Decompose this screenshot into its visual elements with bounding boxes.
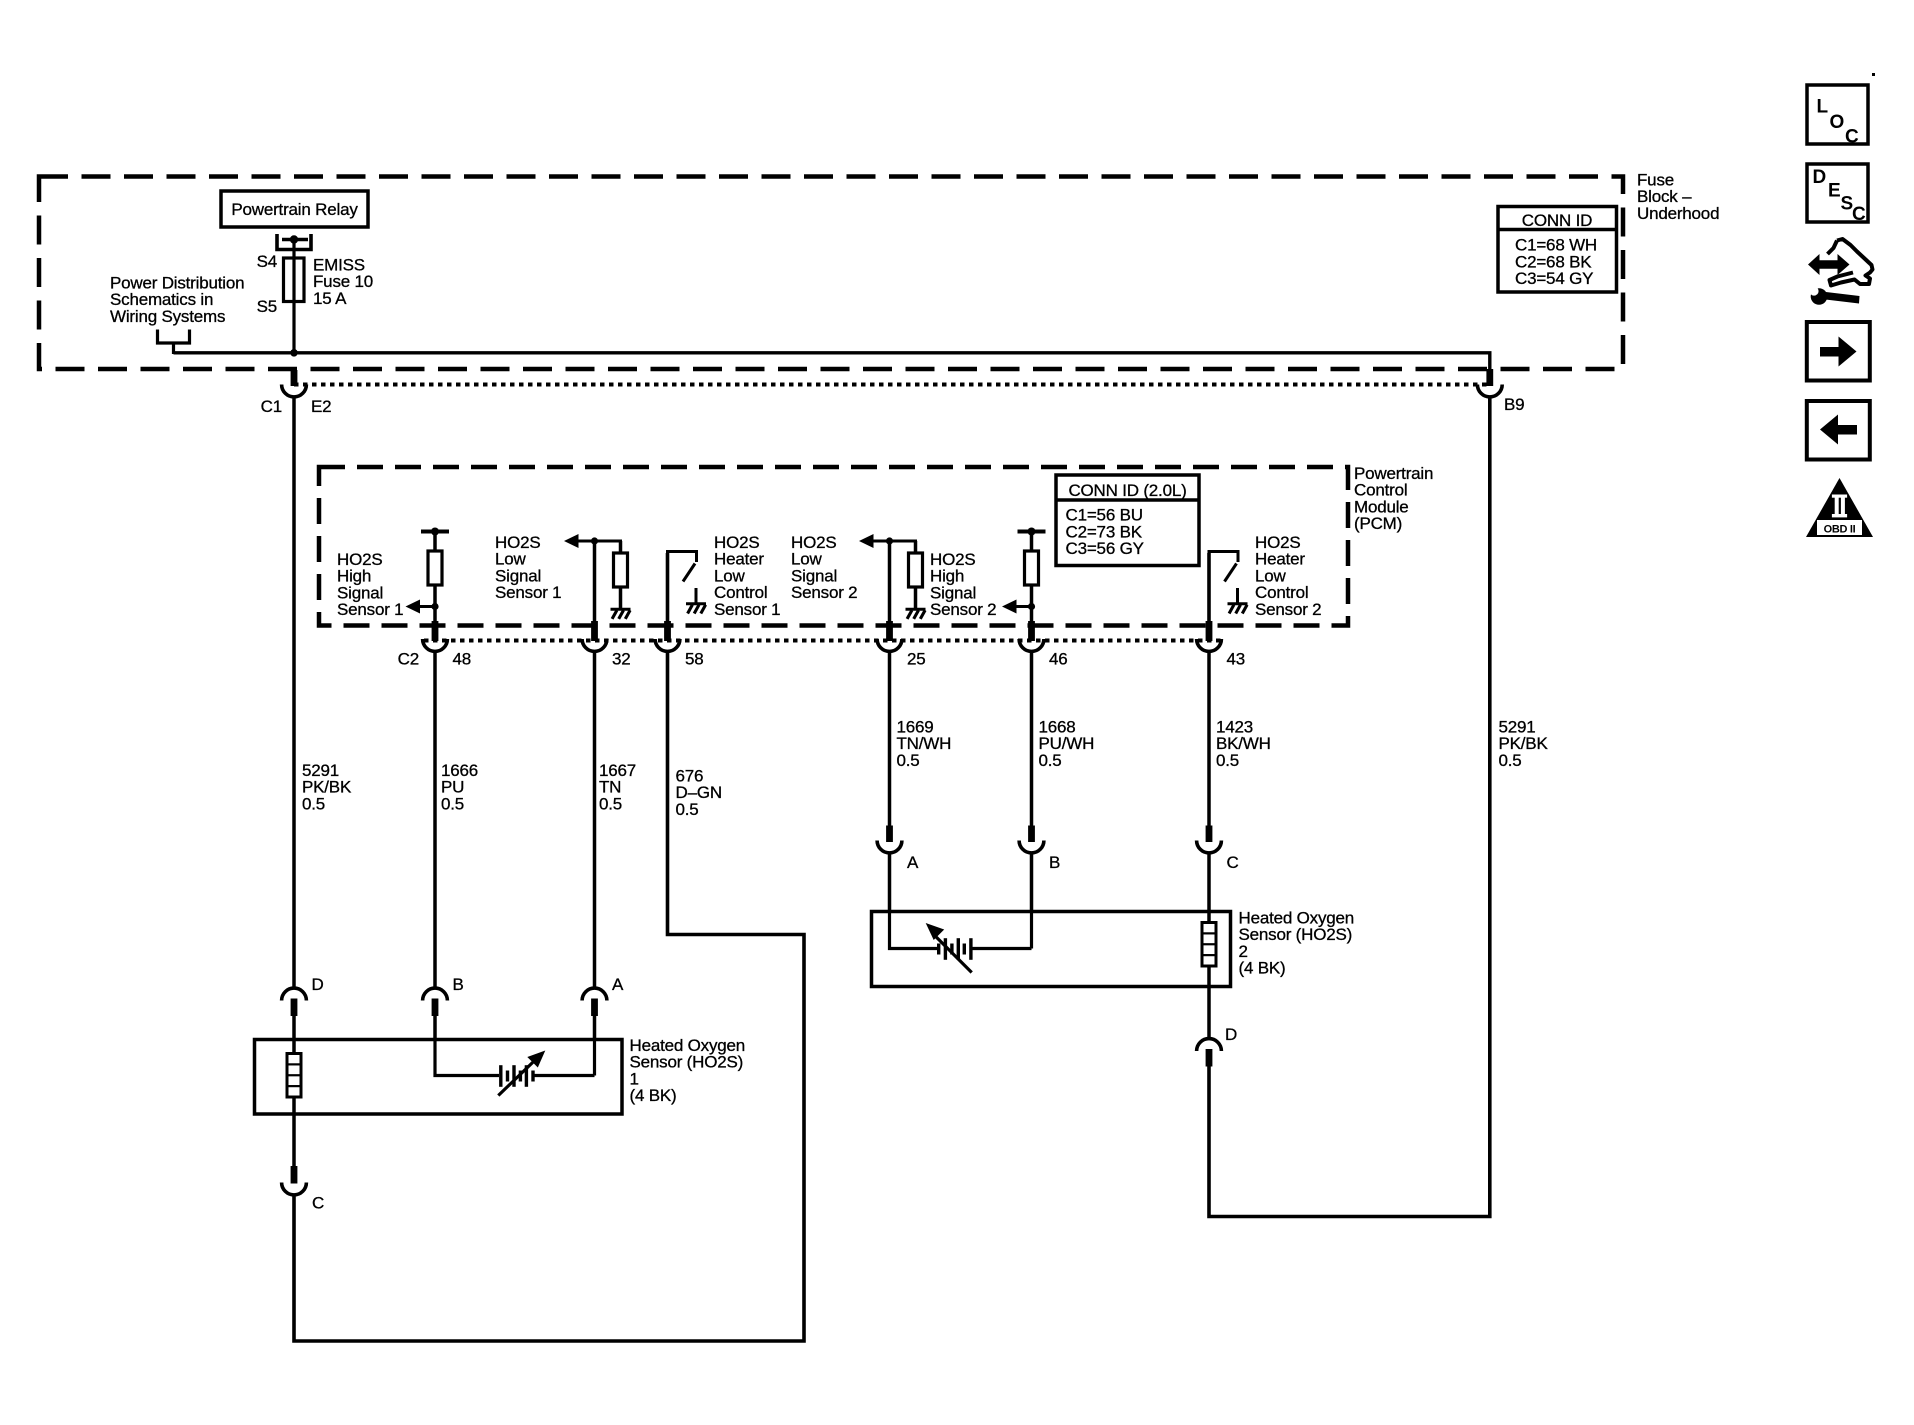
svg-text:Sensor 2: Sensor 2 xyxy=(791,583,857,602)
svg-text:C: C xyxy=(1852,204,1866,225)
svg-text:0.5: 0.5 xyxy=(1216,751,1239,770)
svg-text:Sensor 1: Sensor 1 xyxy=(495,583,561,602)
svg-text:32: 32 xyxy=(612,650,631,669)
svg-text:0.5: 0.5 xyxy=(441,794,464,813)
svg-text:0.5: 0.5 xyxy=(1499,751,1522,770)
svg-text:S5: S5 xyxy=(257,297,277,316)
svg-text:B9: B9 xyxy=(1504,395,1524,414)
svg-text:58: 58 xyxy=(685,650,704,669)
svg-text:E2: E2 xyxy=(311,397,331,416)
svg-text:0.5: 0.5 xyxy=(676,800,699,819)
svg-text:C1: C1 xyxy=(261,397,282,416)
svg-text:S4: S4 xyxy=(257,252,277,271)
svg-text:Wiring Systems: Wiring Systems xyxy=(110,307,225,326)
svg-text:0.5: 0.5 xyxy=(302,794,325,813)
svg-text:B: B xyxy=(453,975,464,994)
svg-text:C: C xyxy=(312,1194,324,1213)
svg-text:A: A xyxy=(907,853,919,872)
svg-text:48: 48 xyxy=(453,650,472,669)
svg-text:D: D xyxy=(312,975,324,994)
svg-text:(PCM): (PCM) xyxy=(1354,514,1402,533)
svg-text:43: 43 xyxy=(1227,650,1246,669)
svg-text:D: D xyxy=(1225,1025,1237,1044)
svg-text:46: 46 xyxy=(1049,650,1068,669)
svg-text:D: D xyxy=(1813,167,1827,188)
svg-text:Sensor (HO2S): Sensor (HO2S) xyxy=(1239,925,1353,944)
svg-text:A: A xyxy=(612,975,624,994)
svg-text:0.5: 0.5 xyxy=(599,794,622,813)
svg-text:C: C xyxy=(1845,127,1859,148)
svg-text:E: E xyxy=(1828,181,1841,202)
svg-text:Sensor 2: Sensor 2 xyxy=(1255,600,1321,619)
svg-text:25: 25 xyxy=(907,650,926,669)
svg-text:Sensor 1: Sensor 1 xyxy=(337,600,403,619)
svg-text:CONN ID: CONN ID xyxy=(1522,211,1592,230)
svg-text:CONN ID (2.0L): CONN ID (2.0L) xyxy=(1068,481,1186,500)
svg-text:L: L xyxy=(1817,97,1829,118)
svg-text:Sensor 2: Sensor 2 xyxy=(930,600,996,619)
svg-text:C3=54 GY: C3=54 GY xyxy=(1515,269,1593,288)
svg-text:O: O xyxy=(1830,112,1845,133)
svg-text:0.5: 0.5 xyxy=(1039,751,1062,770)
svg-text:(4 BK): (4 BK) xyxy=(630,1086,677,1105)
svg-text:(4 BK): (4 BK) xyxy=(1239,959,1286,978)
svg-text:C2: C2 xyxy=(398,650,419,669)
svg-text:B: B xyxy=(1049,853,1060,872)
svg-text:C3=56 GY: C3=56 GY xyxy=(1066,539,1144,558)
svg-text:Sensor (HO2S): Sensor (HO2S) xyxy=(630,1053,744,1072)
svg-text:Sensor 1: Sensor 1 xyxy=(714,600,780,619)
svg-text:0.5: 0.5 xyxy=(897,751,920,770)
svg-text:Powertrain Relay: Powertrain Relay xyxy=(231,200,358,219)
svg-text:Underhood: Underhood xyxy=(1637,204,1719,223)
svg-text:C: C xyxy=(1227,853,1239,872)
svg-text:OBD II: OBD II xyxy=(1824,524,1856,536)
svg-text:15 A: 15 A xyxy=(313,289,347,308)
